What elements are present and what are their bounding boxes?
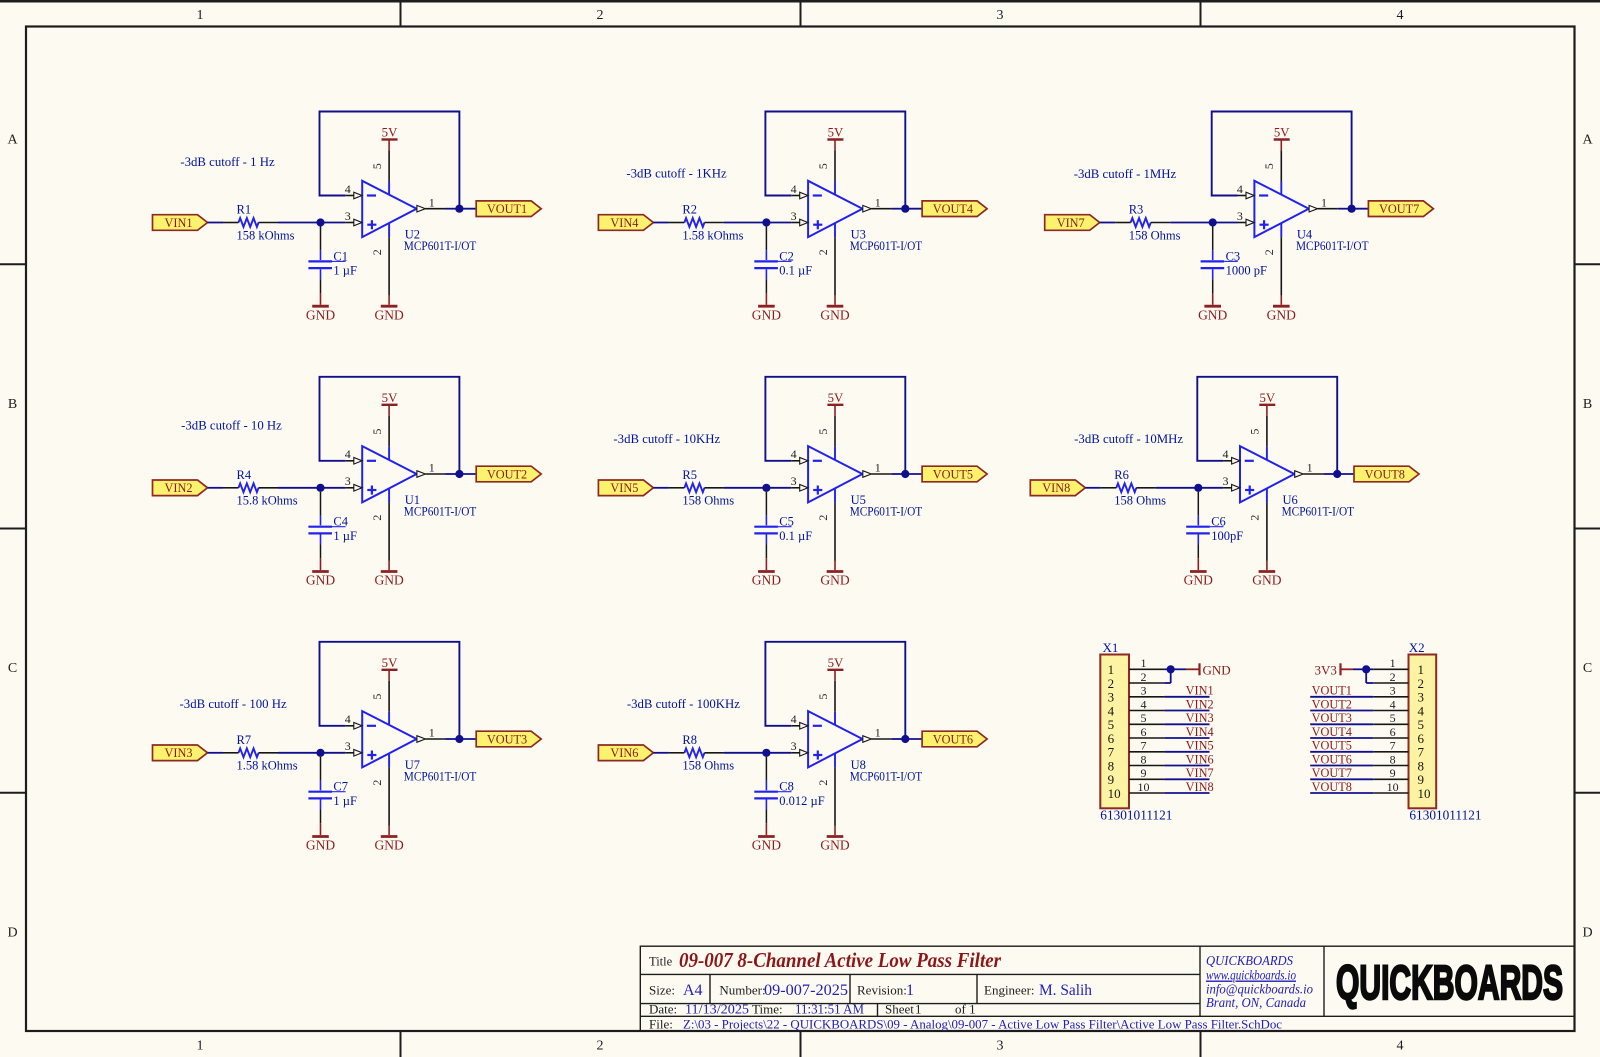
svg-text:C: C bbox=[8, 661, 17, 676]
resistor R6 158 Ohms bbox=[1101, 468, 1166, 508]
title block grid bbox=[640, 946, 1574, 1031]
svg-text:09-007 8-Channel Active Low Pa: 09-007 8-Channel Active Low Pass Filter bbox=[679, 948, 1002, 972]
feedback wire U7 output to pin4 bbox=[320, 642, 460, 739]
wire node to U5 pin3 bbox=[766, 487, 791, 489]
svg-text:3: 3 bbox=[791, 739, 797, 753]
wire X2 pin7 net bbox=[1310, 751, 1373, 753]
wire X1 pin5 net bbox=[1164, 723, 1209, 725]
svg-text:5V: 5V bbox=[828, 391, 844, 405]
svg-text:10: 10 bbox=[1418, 786, 1431, 801]
svg-text:VIN5: VIN5 bbox=[1186, 739, 1214, 753]
wire U6 pin1 to node bbox=[1323, 473, 1337, 475]
power 5V (U4 pin5) bbox=[1274, 126, 1291, 151]
svg-text:2: 2 bbox=[597, 1039, 604, 1054]
svg-text:Revision:: Revision: bbox=[857, 983, 907, 998]
port VIN8 bbox=[1030, 480, 1085, 496]
ground GND (C1) bbox=[306, 293, 335, 322]
X1 pin 4 bbox=[1129, 697, 1164, 711]
svg-text:158 kOhms: 158 kOhms bbox=[237, 228, 295, 242]
note -3dB cutoff - 1KHz bbox=[626, 166, 727, 180]
net label VIN2 bbox=[1186, 697, 1214, 711]
svg-text:Title: Title bbox=[649, 955, 673, 969]
ground GND (U1 pin2) bbox=[374, 561, 403, 588]
svg-text:4: 4 bbox=[1397, 1039, 1404, 1054]
svg-text:11/13/2025: 11/13/2025 bbox=[685, 1003, 749, 1018]
svg-text:MCP601T-I/OT: MCP601T-I/OT bbox=[850, 239, 923, 253]
svg-text:GND: GND bbox=[306, 573, 335, 588]
file row bbox=[649, 1016, 1282, 1031]
svg-text:B: B bbox=[8, 397, 17, 412]
wire U7 pin1 to node bbox=[446, 738, 460, 740]
svg-text:4: 4 bbox=[345, 712, 351, 726]
svg-text:VOUT1: VOUT1 bbox=[1312, 684, 1352, 698]
svg-text:Size:: Size: bbox=[649, 983, 675, 998]
capacitor C3 1000 pF bbox=[1201, 227, 1267, 294]
ground GND (C6) bbox=[1184, 558, 1213, 587]
svg-text:C5: C5 bbox=[779, 515, 794, 529]
svg-text:2: 2 bbox=[370, 515, 384, 521]
svg-text:VOUT8: VOUT8 bbox=[1365, 467, 1405, 481]
svg-text:5: 5 bbox=[370, 694, 384, 700]
svg-text:www.quickboards.io: www.quickboards.io bbox=[1206, 969, 1296, 984]
port VOUT5 bbox=[922, 466, 987, 482]
svg-text:QUICKBOARDS: QUICKBOARDS bbox=[1206, 954, 1293, 969]
wire U5 pin1 to node bbox=[891, 473, 905, 475]
net label VOUT7 bbox=[1312, 766, 1352, 780]
svg-text:C1: C1 bbox=[333, 249, 348, 263]
svg-text:5: 5 bbox=[370, 163, 384, 169]
svg-text:R4: R4 bbox=[237, 468, 252, 482]
wire node to U8 pin3 bbox=[766, 752, 791, 754]
port VOUT8 bbox=[1354, 466, 1419, 482]
title 09-007 8-Channel Active Low Pass Filter bbox=[679, 948, 1002, 972]
X2 pin 3 bbox=[1373, 684, 1408, 698]
svg-text:X2: X2 bbox=[1409, 640, 1425, 655]
svg-text:M. Salih: M. Salih bbox=[1039, 982, 1092, 999]
wire R6 to node bbox=[1156, 487, 1199, 489]
svg-text:GND: GND bbox=[752, 307, 781, 322]
svg-text:R2: R2 bbox=[682, 203, 697, 217]
svg-text:1: 1 bbox=[429, 461, 435, 475]
X1 pin 6 bbox=[1129, 725, 1164, 739]
power 3V3 (X2) bbox=[1315, 663, 1354, 678]
wire X1 pin8 net bbox=[1164, 765, 1209, 767]
X1 pin 3 bbox=[1129, 684, 1164, 698]
port VIN2 bbox=[153, 480, 208, 496]
wire node to U1 pin3 bbox=[321, 487, 346, 489]
svg-text:1: 1 bbox=[429, 195, 435, 209]
X1 pin 5 bbox=[1129, 711, 1164, 725]
svg-text:VOUT2: VOUT2 bbox=[487, 467, 527, 481]
wire X1 pin1 to pin2 bbox=[1164, 669, 1170, 683]
port VIN6 bbox=[598, 745, 653, 761]
svg-text:VIN5: VIN5 bbox=[610, 481, 638, 495]
ground GND (U8 pin2) bbox=[820, 826, 849, 853]
junction node U8 pin3 bbox=[762, 749, 770, 757]
svg-text:11:31:51 AM: 11:31:51 AM bbox=[795, 1003, 865, 1018]
resistor R5 158 Ohms bbox=[669, 468, 734, 508]
svg-text:158 Ohms: 158 Ohms bbox=[1114, 494, 1166, 508]
wire X2 pin9 net bbox=[1310, 778, 1373, 780]
svg-text:5V: 5V bbox=[828, 126, 844, 140]
wire U1 pin1 to node bbox=[446, 473, 460, 475]
note -3dB cutoff - 100KHz bbox=[627, 697, 740, 711]
capacitor C8 0.012 µF bbox=[754, 757, 824, 824]
capacitor C1 1 µF bbox=[308, 227, 357, 294]
svg-text:4: 4 bbox=[791, 182, 797, 196]
wire node to U7 pin3 bbox=[321, 752, 346, 754]
resistor R7 1.58 kOhms bbox=[223, 733, 298, 773]
svg-text:GND: GND bbox=[1267, 307, 1296, 322]
svg-text:5: 5 bbox=[370, 429, 384, 435]
svg-text:5V: 5V bbox=[382, 656, 398, 670]
svg-text:2: 2 bbox=[816, 515, 830, 521]
wire X1 pin1 to GND bbox=[1164, 668, 1186, 670]
note -3dB cutoff - 1 Hz bbox=[180, 155, 275, 169]
ground GND (C3) bbox=[1198, 293, 1227, 322]
svg-text:C7: C7 bbox=[333, 780, 348, 794]
wire R2 to node bbox=[724, 222, 767, 224]
junction node U3 pin3 bbox=[762, 218, 770, 226]
svg-text:2: 2 bbox=[370, 780, 384, 786]
ground GND (C8) bbox=[752, 823, 781, 852]
note -3dB cutoff - 1MHz bbox=[1074, 167, 1177, 181]
svg-text:1.58 kOhms: 1.58 kOhms bbox=[237, 759, 298, 773]
wire node to VOUT1 bbox=[459, 208, 476, 210]
wire VIN4 to R2 bbox=[653, 222, 669, 224]
svg-text:8: 8 bbox=[1141, 752, 1147, 766]
capacitor C4 1 µF bbox=[308, 492, 357, 559]
svg-text:1: 1 bbox=[1307, 461, 1313, 475]
svg-text:3: 3 bbox=[1390, 684, 1396, 698]
wire VIN2 to R4 bbox=[208, 487, 224, 489]
svg-text:C8: C8 bbox=[779, 780, 794, 794]
wire X1 pin3 net bbox=[1164, 696, 1209, 698]
svg-text:61301011121: 61301011121 bbox=[1409, 808, 1481, 823]
junction node U5 pin3 bbox=[762, 484, 770, 492]
svg-text:0.1 µF: 0.1 µF bbox=[779, 264, 812, 278]
svg-text:8: 8 bbox=[1108, 758, 1115, 773]
X1 pin 7 bbox=[1129, 739, 1164, 753]
svg-text:1: 1 bbox=[875, 461, 881, 475]
svg-text:4: 4 bbox=[1390, 697, 1396, 711]
svg-text:3: 3 bbox=[997, 1039, 1004, 1054]
op-amp U1 MCP601T-I/OT bbox=[345, 416, 477, 561]
svg-text:5: 5 bbox=[816, 163, 830, 169]
svg-text:GND: GND bbox=[374, 573, 403, 588]
svg-text:1 µF: 1 µF bbox=[333, 264, 357, 278]
svg-text:1: 1 bbox=[1390, 656, 1396, 670]
svg-text:C2: C2 bbox=[779, 249, 794, 263]
svg-text:2: 2 bbox=[1418, 676, 1425, 691]
junction node U2 output bbox=[455, 205, 463, 213]
svg-text:C4: C4 bbox=[333, 515, 348, 529]
svg-text:MCP601T-I/OT: MCP601T-I/OT bbox=[404, 504, 477, 518]
X2 pin 9 bbox=[1373, 766, 1408, 780]
svg-text:7: 7 bbox=[1141, 739, 1147, 753]
svg-text:-3dB cutoff - 10MHz: -3dB cutoff - 10MHz bbox=[1074, 432, 1183, 446]
capacitor C6 100pF bbox=[1186, 492, 1243, 559]
svg-text:VIN7: VIN7 bbox=[1057, 216, 1085, 230]
svg-text:C3: C3 bbox=[1226, 249, 1241, 263]
svg-text:VOUT4: VOUT4 bbox=[933, 202, 973, 216]
svg-text:2: 2 bbox=[816, 780, 830, 786]
resistor R8 158 Ohms bbox=[669, 733, 734, 773]
svg-text:-3dB cutoff - 100 Hz: -3dB cutoff - 100 Hz bbox=[180, 697, 287, 711]
svg-text:VOUT3: VOUT3 bbox=[487, 732, 527, 746]
svg-text:5: 5 bbox=[1390, 711, 1396, 725]
junction node U6 output bbox=[1333, 470, 1341, 478]
junction node U2 pin3 bbox=[316, 218, 324, 226]
svg-text:-3dB cutoff - 10 Hz: -3dB cutoff - 10 Hz bbox=[181, 419, 282, 433]
svg-text:VOUT8: VOUT8 bbox=[1312, 780, 1352, 794]
svg-text:MCP601T-I/OT: MCP601T-I/OT bbox=[850, 769, 923, 783]
svg-text:1 µF: 1 µF bbox=[333, 529, 357, 543]
svg-text:C6: C6 bbox=[1211, 515, 1226, 529]
op-amp U3 MCP601T-I/OT bbox=[791, 150, 923, 295]
svg-text:5V: 5V bbox=[1259, 391, 1275, 405]
resistor R3 158 Ohms bbox=[1115, 203, 1180, 243]
svg-text:R7: R7 bbox=[237, 733, 252, 747]
capacitor C5 0.1 µF bbox=[754, 492, 812, 559]
X2 pin 5 bbox=[1373, 711, 1408, 725]
svg-text:VIN3: VIN3 bbox=[1186, 711, 1214, 725]
port VOUT1 bbox=[476, 201, 541, 217]
port VOUT3 bbox=[476, 731, 541, 747]
wire node to U6 pin3 bbox=[1198, 487, 1223, 489]
resistor R4 15.8 kOhms bbox=[223, 468, 298, 508]
ground GND (C7) bbox=[306, 823, 335, 852]
svg-text:1.58 kOhms: 1.58 kOhms bbox=[682, 228, 743, 242]
svg-text:5: 5 bbox=[816, 694, 830, 700]
wire R4 to node bbox=[278, 487, 321, 489]
svg-text:R8: R8 bbox=[682, 733, 697, 747]
svg-text:3: 3 bbox=[1237, 209, 1243, 223]
svg-text:-3dB cutoff - 1KHz: -3dB cutoff - 1KHz bbox=[626, 166, 727, 180]
junction node U7 output bbox=[455, 735, 463, 743]
feedback wire U3 output to pin4 bbox=[765, 112, 905, 209]
op-amp U2 MCP601T-I/OT bbox=[345, 150, 477, 295]
feedback wire U6 output to pin4 bbox=[1197, 377, 1337, 474]
X1 pin 10 bbox=[1129, 780, 1164, 794]
port VIN7 bbox=[1045, 215, 1100, 231]
svg-text:GND: GND bbox=[1198, 307, 1227, 322]
svg-text:0.1 µF: 0.1 µF bbox=[779, 529, 812, 543]
ground GND (U2 pin2) bbox=[374, 296, 403, 323]
junction X2 pin1 bbox=[1362, 665, 1370, 673]
port VIN5 bbox=[598, 480, 653, 496]
note -3dB cutoff - 100 Hz bbox=[180, 697, 287, 711]
svg-text:VOUT6: VOUT6 bbox=[1312, 752, 1352, 766]
svg-text:QUICKBOARDS: QUICKBOARDS bbox=[1336, 957, 1563, 1010]
svg-text:6: 6 bbox=[1108, 731, 1115, 746]
svg-text:6: 6 bbox=[1390, 725, 1396, 739]
net label VIN3 bbox=[1186, 711, 1214, 725]
junction node U4 pin3 bbox=[1209, 218, 1217, 226]
junction node U1 output bbox=[455, 470, 463, 478]
X2 pin 7 bbox=[1373, 739, 1408, 753]
svg-text:1: 1 bbox=[197, 1039, 204, 1054]
port VOUT7 bbox=[1368, 201, 1433, 217]
X2 pin 1 bbox=[1373, 656, 1408, 670]
svg-text:5V: 5V bbox=[828, 656, 844, 670]
net label VOUT5 bbox=[1312, 739, 1352, 753]
svg-text:3: 3 bbox=[345, 209, 351, 223]
svg-text:GND: GND bbox=[306, 307, 335, 322]
svg-text:VIN7: VIN7 bbox=[1186, 766, 1214, 780]
op-amp U8 MCP601T-I/OT bbox=[791, 681, 923, 826]
X2 pin 4 bbox=[1373, 697, 1408, 711]
wire U2 pin1 to node bbox=[446, 208, 460, 210]
svg-text:4: 4 bbox=[1237, 182, 1243, 196]
svg-text:3: 3 bbox=[345, 739, 351, 753]
svg-text:1: 1 bbox=[906, 982, 914, 999]
svg-text:1: 1 bbox=[1321, 195, 1327, 209]
svg-text:VIN8: VIN8 bbox=[1042, 481, 1070, 495]
wire R8 to node bbox=[724, 752, 767, 754]
junction node U4 output bbox=[1348, 205, 1356, 213]
svg-text:File:: File: bbox=[649, 1016, 673, 1031]
net label VOUT4 bbox=[1312, 725, 1352, 739]
svg-text:5: 5 bbox=[1141, 711, 1147, 725]
wire X2 pin1 to pin2 bbox=[1366, 669, 1373, 683]
svg-text:VOUT7: VOUT7 bbox=[1379, 202, 1419, 216]
svg-text:D: D bbox=[7, 925, 17, 940]
svg-text:5V: 5V bbox=[1274, 126, 1290, 140]
op-amp U4 MCP601T-I/OT bbox=[1237, 150, 1369, 295]
wire node to VOUT2 bbox=[459, 473, 476, 475]
svg-text:1000 pF: 1000 pF bbox=[1226, 264, 1267, 278]
wire VIN7 to R3 bbox=[1100, 222, 1116, 224]
net label VOUT2 bbox=[1312, 697, 1352, 711]
svg-text:VIN3: VIN3 bbox=[164, 746, 192, 760]
svg-text:3: 3 bbox=[791, 209, 797, 223]
wire VIN3 to R7 bbox=[208, 752, 224, 754]
ground GND (U7 pin2) bbox=[374, 826, 403, 853]
svg-text:8: 8 bbox=[1418, 758, 1425, 773]
svg-text:of 1: of 1 bbox=[955, 1002, 976, 1017]
size/number/revision/engineer row bbox=[649, 982, 1092, 999]
svg-text:GND: GND bbox=[1252, 573, 1281, 588]
svg-text:9: 9 bbox=[1390, 766, 1396, 780]
svg-text:R3: R3 bbox=[1129, 203, 1144, 217]
svg-text:Z:\03 - Projects\22 - QUICKBOA: Z:\03 - Projects\22 - QUICKBOARDS\09 - A… bbox=[683, 1017, 1282, 1031]
svg-text:2: 2 bbox=[1108, 676, 1115, 691]
ground GND (U6 pin2) bbox=[1252, 561, 1281, 588]
svg-text:GND: GND bbox=[820, 838, 849, 853]
net label VIN8 bbox=[1186, 780, 1214, 794]
svg-text:VIN6: VIN6 bbox=[1186, 752, 1214, 766]
net label VIN1 bbox=[1186, 684, 1214, 698]
junction X1 pin1 bbox=[1167, 665, 1175, 673]
wire X2 pin8 net bbox=[1310, 765, 1373, 767]
svg-text:GND: GND bbox=[752, 838, 781, 853]
svg-text:3: 3 bbox=[1141, 684, 1147, 698]
date/time/sheet row bbox=[649, 1002, 976, 1018]
wire node to U3 pin3 bbox=[766, 222, 791, 224]
capacitor C2 0.1 µF bbox=[754, 227, 812, 294]
svg-text:Brant, ON, Canada: Brant, ON, Canada bbox=[1206, 996, 1306, 1011]
svg-text:158 Ohms: 158 Ohms bbox=[682, 759, 734, 773]
X1 pin 9 bbox=[1129, 766, 1164, 780]
svg-text:100pF: 100pF bbox=[1211, 529, 1243, 543]
svg-text:VIN6: VIN6 bbox=[610, 746, 638, 760]
svg-text:MCP601T-I/OT: MCP601T-I/OT bbox=[404, 769, 477, 783]
svg-text:4: 4 bbox=[1418, 703, 1425, 718]
wire U8 pin1 to node bbox=[891, 738, 905, 740]
svg-text:158 Ohms: 158 Ohms bbox=[1129, 228, 1181, 242]
wire X1 pin9 net bbox=[1164, 778, 1209, 780]
feedback wire U1 output to pin4 bbox=[320, 377, 460, 474]
svg-text:2: 2 bbox=[816, 249, 830, 255]
logo QUICKBOARDS bbox=[1336, 957, 1563, 1010]
feedback wire U2 output to pin4 bbox=[320, 112, 460, 209]
net label VIN7 bbox=[1186, 766, 1214, 780]
svg-text:2: 2 bbox=[370, 249, 384, 255]
svg-text:VIN1: VIN1 bbox=[1186, 684, 1214, 698]
svg-text:VIN4: VIN4 bbox=[610, 216, 638, 230]
svg-text:-3dB cutoff - 1MHz: -3dB cutoff - 1MHz bbox=[1074, 167, 1177, 181]
port VOUT4 bbox=[922, 201, 987, 217]
svg-text:X1: X1 bbox=[1103, 640, 1119, 655]
svg-text:R5: R5 bbox=[682, 468, 697, 482]
power 5V (U2 pin5) bbox=[382, 126, 399, 151]
ground GND (C5) bbox=[752, 558, 781, 587]
op-amp U6 MCP601T-I/OT bbox=[1223, 416, 1355, 561]
net label VOUT6 bbox=[1312, 752, 1352, 766]
X2 pin 2 bbox=[1373, 670, 1408, 684]
svg-text:VOUT2: VOUT2 bbox=[1312, 697, 1352, 711]
ground GND (U3 pin2) bbox=[820, 296, 849, 323]
wire X2 pin10 net bbox=[1310, 792, 1373, 794]
power 5V (U8 pin5) bbox=[827, 656, 844, 681]
wire node to VOUT6 bbox=[905, 738, 922, 740]
wire node to U4 pin3 bbox=[1213, 222, 1238, 224]
svg-text:8: 8 bbox=[1390, 752, 1396, 766]
svg-text:4: 4 bbox=[1223, 447, 1229, 461]
svg-text:5V: 5V bbox=[382, 391, 398, 405]
port VIN1 bbox=[153, 215, 208, 231]
net label VOUT1 bbox=[1312, 684, 1352, 698]
wire X2 pin6 net bbox=[1310, 737, 1373, 739]
wire R5 to node bbox=[724, 487, 767, 489]
svg-text:MCP601T-I/OT: MCP601T-I/OT bbox=[1296, 239, 1369, 253]
port VIN4 bbox=[598, 215, 653, 231]
svg-text:6: 6 bbox=[1418, 731, 1425, 746]
svg-text:7: 7 bbox=[1390, 739, 1396, 753]
svg-text:5V: 5V bbox=[382, 126, 398, 140]
svg-text:10: 10 bbox=[1387, 780, 1399, 794]
wire node to VOUT3 bbox=[459, 738, 476, 740]
connector X2 61301011121 bbox=[1409, 640, 1482, 823]
svg-text:5: 5 bbox=[1262, 163, 1276, 169]
svg-text:GND: GND bbox=[820, 573, 849, 588]
wire R3 to node bbox=[1170, 222, 1213, 224]
title label bbox=[649, 955, 673, 969]
ground GND (U5 pin2) bbox=[820, 561, 849, 588]
svg-text:3V3: 3V3 bbox=[1315, 663, 1337, 678]
power GND (X1) bbox=[1186, 663, 1231, 678]
svg-text:GND: GND bbox=[820, 307, 849, 322]
ground GND (C4) bbox=[306, 558, 335, 587]
svg-text:-3dB cutoff - 10KHz: -3dB cutoff - 10KHz bbox=[613, 432, 720, 446]
net label VOUT3 bbox=[1312, 711, 1352, 725]
resistor R2 1.58 kOhms bbox=[669, 203, 744, 243]
svg-text:A: A bbox=[7, 133, 18, 148]
svg-text:A4: A4 bbox=[683, 982, 703, 999]
junction node U5 output bbox=[901, 470, 909, 478]
svg-text:4: 4 bbox=[1141, 697, 1147, 711]
